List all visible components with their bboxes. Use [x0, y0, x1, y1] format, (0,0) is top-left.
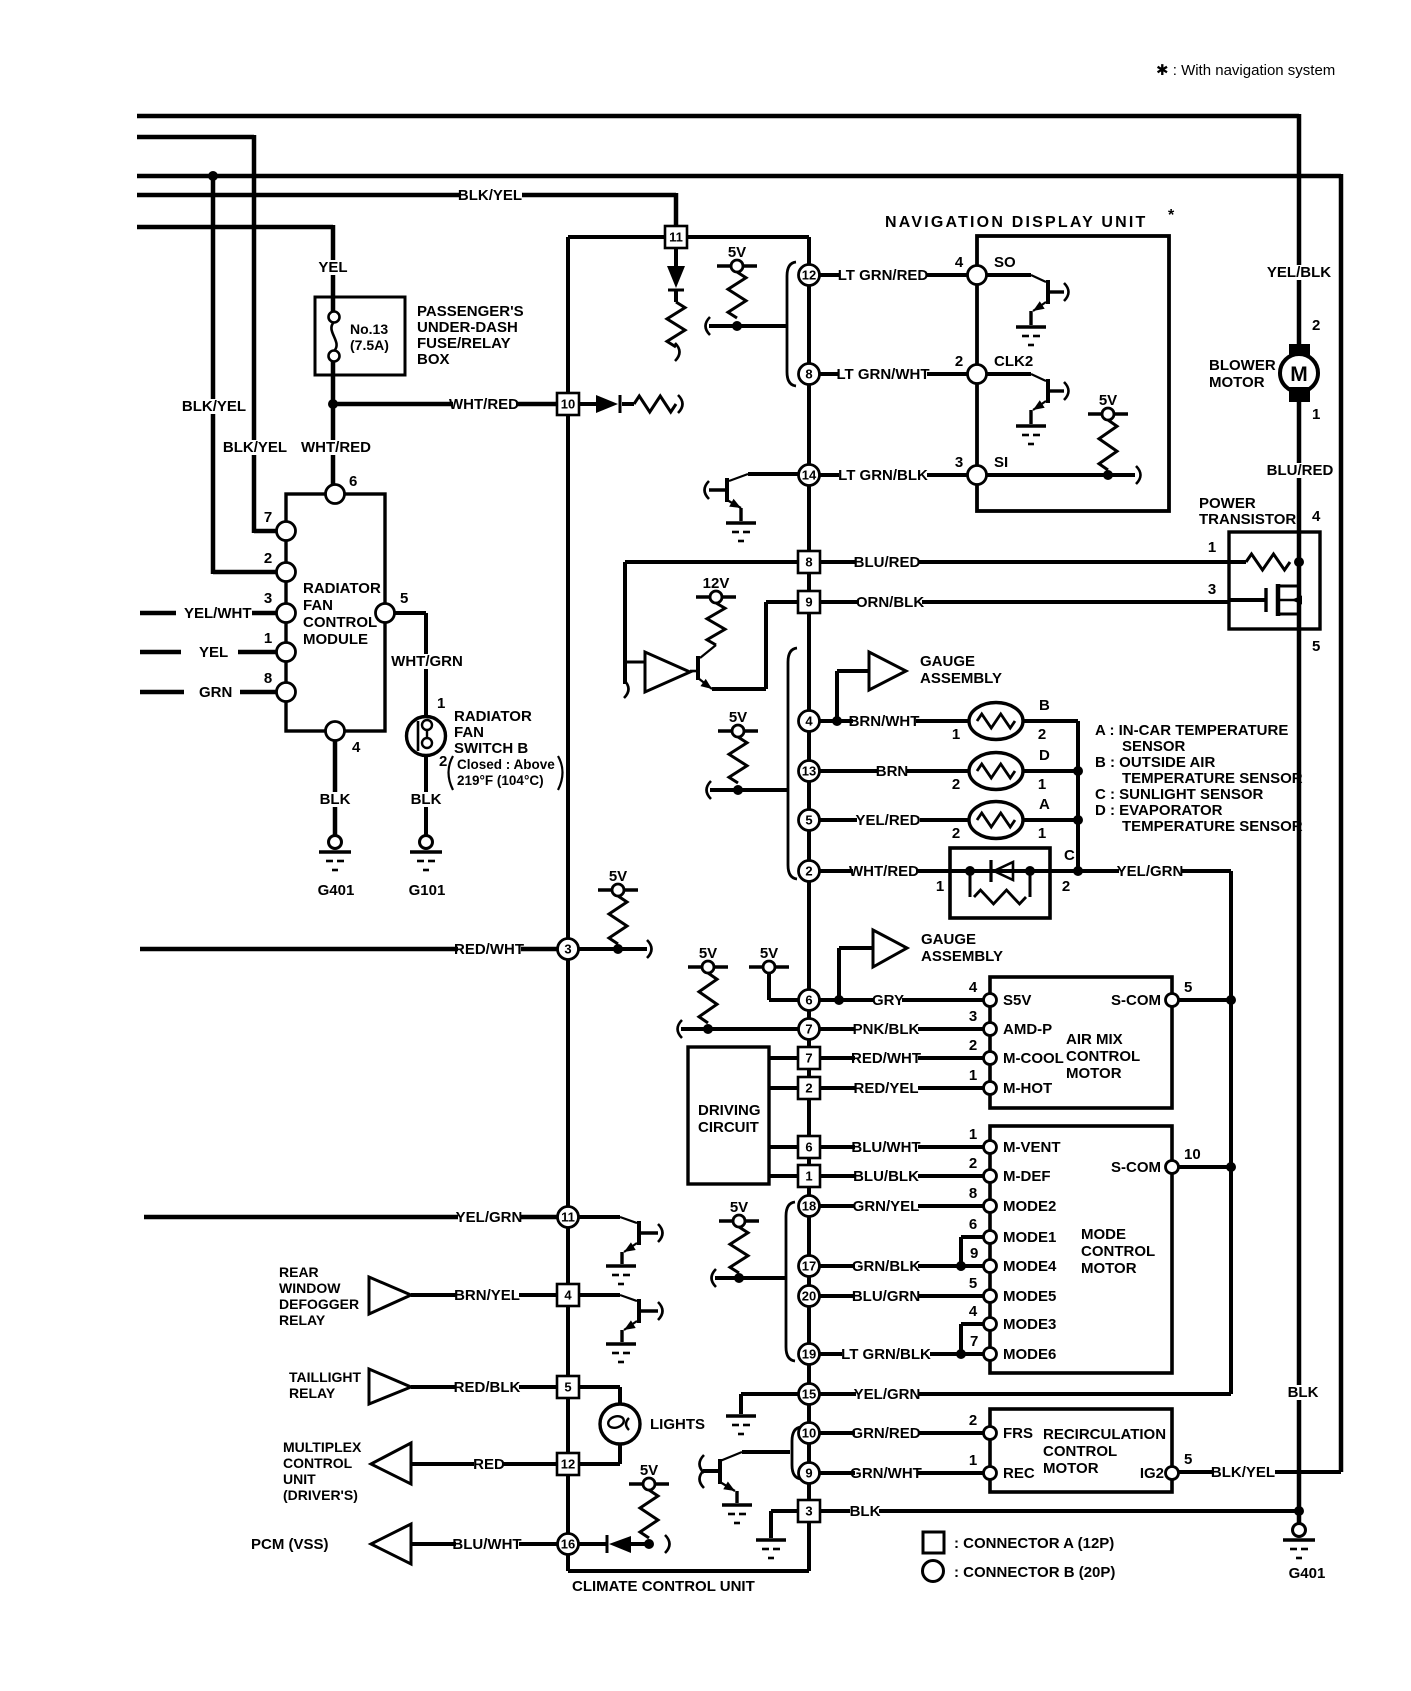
resistor 5V F [640, 1490, 658, 1538]
nav resistor 5V [1099, 420, 1117, 470]
svg-text:5: 5 [564, 1380, 571, 1395]
wire BLK long [820, 1509, 1299, 1513]
svg-text:BOX: BOX [417, 351, 450, 368]
svg-text:(7.5A): (7.5A) [350, 337, 389, 353]
wire circle15 to ground [741, 1392, 798, 1396]
svg-text:5: 5 [1312, 638, 1320, 655]
connector A square 1 [798, 1165, 820, 1187]
svg-text:19: 19 [802, 1347, 816, 1362]
module pin 7 [277, 522, 296, 541]
svg-text:3: 3 [955, 454, 963, 471]
module pin 5 [376, 604, 395, 623]
wire YEL/GRN long [144, 1215, 557, 1220]
air mix pin S-COM [1166, 994, 1179, 1007]
label BLU/WHT [855, 1140, 918, 1155]
svg-text:5V: 5V [760, 945, 778, 962]
recirc pin FRS [984, 1427, 997, 1440]
wire S-COM 5 to YEL/GRN [1178, 998, 1231, 1002]
svg-text:ASSEMBLY: ASSEMBLY [920, 670, 1002, 687]
wire driving to square 2 [769, 1086, 798, 1090]
ground Q-11 [606, 1264, 636, 1268]
svg-text:MODE5: MODE5 [1003, 1288, 1056, 1305]
svg-text:B : OUTSIDE AIR: B : OUTSIDE AIR [1095, 754, 1215, 771]
connector B circle 16 [558, 1534, 579, 1555]
label RED/WHT long [458, 942, 521, 957]
wire driving to square 7 [769, 1056, 798, 1060]
svg-text:BLK/YEL: BLK/YEL [1211, 1464, 1275, 1481]
wire 5V A to brace [706, 317, 711, 335]
label BLU/RED right [1269, 463, 1332, 478]
svg-text:YEL: YEL [318, 259, 347, 276]
svg-text:BLK: BLK [850, 1503, 881, 1520]
svg-text:G401: G401 [318, 882, 355, 899]
label BLU/RED wire [856, 555, 919, 570]
svg-text:18: 18 [802, 1199, 816, 1214]
svg-text:20: 20 [802, 1289, 816, 1304]
svg-text:ASSEMBLY: ASSEMBLY [921, 948, 1003, 965]
svg-text:5V: 5V [730, 1199, 748, 1216]
resistor 5V C2 [609, 896, 627, 944]
svg-text:YEL/RED: YEL/RED [855, 812, 920, 829]
wire switch pin2 to ground [424, 755, 428, 836]
svg-text:WHT/RED: WHT/RED [849, 863, 919, 880]
node MODE4 junction [956, 1261, 966, 1271]
wire LT GRN/RED [820, 273, 967, 277]
recirc pin IG2 [1166, 1467, 1179, 1480]
svg-text:D: D [1039, 747, 1050, 764]
module pin 3 [277, 604, 296, 623]
wire GRN/WHT [820, 1471, 984, 1475]
label BLK left [320, 792, 349, 807]
svg-text:9: 9 [805, 595, 812, 610]
wire feed line 4 BLK/YEL [137, 193, 676, 198]
wire buffer input stub [625, 661, 645, 664]
label WHT/RED vertical [305, 440, 368, 455]
label BLK/YEL on x=213 [183, 399, 246, 414]
fuse No.13 symbol [329, 312, 340, 323]
svg-text:14: 14 [802, 468, 817, 483]
svg-text:MODE: MODE [1081, 1226, 1126, 1243]
wire module pin5 to switch WHT/GRN [394, 611, 426, 615]
label PNK/BLK [855, 1022, 918, 1037]
label LT GRN/WHT [839, 367, 927, 382]
svg-text:Closed : Above: Closed : Above [457, 757, 555, 772]
svg-text:2: 2 [805, 864, 812, 879]
wire driving to square 1 [769, 1174, 798, 1178]
legend connector B circle [923, 1561, 944, 1582]
svg-text:RADIATOR: RADIATOR [454, 708, 532, 725]
svg-text:3: 3 [564, 942, 571, 957]
wire Q-CLK2 to ground [1029, 410, 1032, 424]
node S-COM 5 junction [1226, 995, 1236, 1005]
module pin 8 [277, 683, 296, 702]
nav transistor Q-CLK2 emitter [1033, 401, 1046, 410]
ground Q-CLK2 [1016, 424, 1046, 428]
svg-text:TRANSISTOR: TRANSISTOR [1199, 511, 1296, 528]
svg-text:YEL/GRN: YEL/GRN [854, 1386, 921, 1403]
transistor Q-12V collector [700, 645, 716, 658]
svg-text:UNDER-DASH: UNDER-DASH [417, 319, 518, 336]
svg-text:BLK/YEL: BLK/YEL [223, 439, 287, 456]
svg-text:1: 1 [936, 878, 944, 895]
svg-text:1: 1 [1038, 776, 1046, 793]
wire YEL/RED [820, 818, 969, 822]
power transistor box [1229, 532, 1320, 629]
svg-text:4: 4 [1312, 508, 1321, 525]
svg-text:ORN/BLK: ORN/BLK [856, 594, 924, 611]
svg-text:9: 9 [805, 1466, 812, 1481]
svg-text:8: 8 [805, 367, 812, 382]
svg-text:RADIATOR: RADIATOR [303, 580, 381, 597]
wire bulb to box12 [618, 1443, 622, 1464]
svg-text:BRN/YEL: BRN/YEL [454, 1287, 520, 1304]
svg-text:MOTOR: MOTOR [1209, 374, 1265, 391]
ground G401 left [329, 836, 342, 849]
transistor Q-14 emitter [727, 500, 741, 508]
svg-text:RELAY: RELAY [279, 1312, 326, 1328]
svg-text:BLK: BLK [320, 791, 351, 808]
diode at connector 10 [580, 402, 596, 406]
svg-text:G401: G401 [1289, 1565, 1326, 1582]
svg-text:2: 2 [969, 1412, 977, 1429]
svg-text:BRN: BRN [876, 763, 909, 780]
svg-text:BLK/YEL: BLK/YEL [182, 398, 246, 415]
svg-text:DRIVING: DRIVING [698, 1102, 761, 1119]
ground Q-4 [606, 1342, 636, 1346]
svg-text:RED/WHT: RED/WHT [851, 1050, 921, 1067]
brace sensor connectors [788, 648, 797, 879]
label YEL/GRN long [458, 1210, 521, 1225]
wire box5 to bulb [579, 1385, 620, 1389]
transistor Q-rec emitter [720, 1482, 735, 1491]
gauge assembly 1 triangle [869, 652, 906, 690]
node S-COM 10 junction [1226, 1162, 1236, 1172]
svg-text:FUSE/RELAY: FUSE/RELAY [417, 335, 511, 352]
node gauge2 junction [834, 995, 844, 1005]
label WHT/GRN [396, 654, 459, 669]
climate control unit right edge [807, 237, 811, 1571]
transistor Q-11 collector wire [579, 1215, 620, 1219]
svg-text:C: C [1064, 847, 1075, 864]
svg-text:2: 2 [1062, 878, 1070, 895]
wire sensor A to common [1023, 818, 1078, 822]
svg-text:4: 4 [352, 739, 361, 756]
wire YEL/GRN sensor return [1078, 869, 1231, 873]
wire Q-SO to ground [1029, 311, 1032, 325]
connector B circle 7 [799, 1019, 820, 1040]
wire sensor D to common [1023, 769, 1078, 773]
wire BLU/GRN [820, 1294, 984, 1298]
svg-text:LT GRN/RED: LT GRN/RED [838, 267, 929, 284]
wire 5V B to brace [707, 781, 712, 799]
svg-text:9: 9 [970, 1245, 978, 1262]
gauge assembly 2 triangle [873, 930, 907, 967]
connector B circle 4 [799, 711, 820, 732]
driving circuit box [688, 1047, 769, 1184]
nav pin 4 SO [968, 266, 987, 285]
resistor sensor C parallel [969, 871, 972, 897]
svg-text:2: 2 [969, 1155, 977, 1172]
paren right tall [558, 756, 563, 790]
svg-text:5: 5 [1184, 1451, 1192, 1468]
svg-text:(DRIVER'S): (DRIVER'S) [283, 1487, 358, 1503]
svg-text:PASSENGER'S: PASSENGER'S [417, 303, 524, 320]
power transistor resistor [1229, 560, 1246, 564]
connector B circle 19 [799, 1344, 820, 1365]
node gauge1 junction [832, 716, 842, 726]
node circle3 5V junction [613, 944, 623, 954]
node sensor D junction [1073, 766, 1083, 776]
svg-text:S5V: S5V [1003, 992, 1031, 1009]
wire BRN/YEL [411, 1293, 557, 1297]
svg-text:CLIMATE CONTROL UNIT: CLIMATE CONTROL UNIT [572, 1578, 755, 1595]
label ORN/BLK wire [859, 595, 922, 610]
svg-text:BLK: BLK [1288, 1384, 1319, 1401]
wire BLK/YEL from IG2 [1178, 1470, 1341, 1474]
wire gauge2 to GRY [839, 946, 873, 950]
svg-text:219°F (104°C): 219°F (104°C) [457, 773, 544, 788]
wire gauge1 to BRN/WHT [837, 669, 869, 673]
connector B circle 18 [799, 1196, 820, 1217]
svg-text:POWER: POWER [1199, 495, 1256, 512]
wire Q-11 emitter to ground [620, 1252, 623, 1264]
legend connector A square [923, 1532, 944, 1553]
label GRN/WHT [855, 1466, 918, 1481]
label YEL/BLK [1268, 265, 1331, 280]
air mix pin M-HOT [984, 1082, 997, 1095]
svg-text:2: 2 [969, 1037, 977, 1054]
sensor A oval [969, 802, 1023, 839]
svg-text:MULTIPLEX: MULTIPLEX [283, 1439, 362, 1455]
mode pin MODE6 [984, 1348, 997, 1361]
label BLU/BLK [855, 1169, 918, 1184]
power transistor MOSFET source [1278, 613, 1299, 616]
wire feed line 3 drop to far right [1339, 174, 1344, 1472]
svg-text:3: 3 [805, 1504, 812, 1519]
connector A square 2 [798, 1077, 820, 1099]
defogger relay triangle [369, 1277, 411, 1314]
recirc pin REC [984, 1467, 997, 1480]
mode pin MODE5 [984, 1290, 997, 1303]
wire GRY [820, 998, 984, 1002]
svg-text:M: M [1290, 363, 1308, 386]
radiator fan control module box [286, 494, 385, 731]
svg-text:*: * [1168, 207, 1175, 224]
transistor Q-14 collector wire [748, 472, 798, 476]
paren left tall [449, 756, 454, 790]
svg-text:M-DEF: M-DEF [1003, 1168, 1051, 1185]
navigation display unit box [977, 236, 1169, 511]
radiator fan switch B symbol [407, 717, 446, 756]
svg-text:MOTOR: MOTOR [1081, 1260, 1137, 1277]
module pin 4 [326, 722, 345, 741]
wire feed 5 drop YEL to fuse [331, 225, 336, 312]
svg-text:BLU/WHT: BLU/WHT [851, 1139, 920, 1156]
transistor Q-11 base lead [639, 1231, 658, 1234]
svg-text:: CONNECTOR B (20P): : CONNECTOR B (20P) [954, 1564, 1115, 1581]
transistor Q-11 base bar [637, 1221, 641, 1245]
svg-text:CONTROL: CONTROL [283, 1455, 353, 1471]
nav transistor Q-SO base bar [1046, 280, 1050, 304]
svg-text:CONTROL: CONTROL [1081, 1243, 1155, 1260]
svg-text:4: 4 [969, 1303, 978, 1320]
transistor Q-14 base bar [725, 478, 729, 502]
svg-text:12: 12 [561, 1457, 575, 1472]
pcm triangle [371, 1524, 411, 1564]
label BLK right [1288, 1385, 1317, 1400]
transistor Q-12V emitter [698, 678, 712, 689]
svg-text:7: 7 [805, 1022, 812, 1037]
wire PNK/BLK [820, 1027, 984, 1031]
node 5V E junction [734, 1273, 744, 1283]
wire YEL/GRN return [820, 1392, 1231, 1396]
svg-text:IG2: IG2 [1140, 1465, 1164, 1482]
air mix pin AMD-P [984, 1023, 997, 1036]
wire RED [411, 1462, 557, 1466]
wire GRN/RED [820, 1431, 984, 1435]
svg-text:2: 2 [955, 353, 963, 370]
wire BLK/YEL drop x=213 [211, 176, 216, 574]
wire LT GRN/BLK bottom [820, 1352, 984, 1356]
svg-text:10: 10 [1184, 1146, 1201, 1163]
connector A square 9 [798, 591, 820, 613]
resistor under connector 11 [667, 302, 685, 347]
svg-text:LT GRN/BLK: LT GRN/BLK [838, 467, 928, 484]
node diode16 junction [644, 1539, 654, 1549]
mode pin M-DEF [984, 1170, 997, 1183]
node 5V A junction [732, 321, 742, 331]
svg-text:MODULE: MODULE [303, 631, 368, 648]
resistor 5V E [730, 1227, 748, 1273]
transistor Q-rec collector [720, 1452, 742, 1461]
label GRN/YEL [855, 1199, 918, 1214]
svg-text:6: 6 [805, 993, 812, 1008]
label BRN/YEL [456, 1288, 519, 1303]
label RED/YEL [855, 1081, 918, 1096]
connector B circle 2 [799, 861, 820, 882]
svg-text:FAN: FAN [303, 597, 333, 614]
svg-text:GRN/BLK: GRN/BLK [852, 1258, 920, 1275]
svg-text:No.13: No.13 [350, 321, 388, 337]
connector A square 10 [557, 393, 579, 415]
label GRN/RED [855, 1426, 918, 1441]
wire MODE1 loop [959, 1237, 963, 1266]
svg-text:FAN: FAN [454, 724, 484, 741]
svg-text:G101: G101 [409, 882, 446, 899]
wire feed line 1 drop to blower (YEL/BLK) [1297, 114, 1302, 1523]
power transistor MOSFET drain [1278, 585, 1299, 588]
svg-text:13: 13 [802, 764, 816, 779]
svg-text:UNIT: UNIT [283, 1471, 316, 1487]
wire RED/YEL [820, 1086, 984, 1090]
svg-text:PCM (VSS): PCM (VSS) [251, 1536, 329, 1553]
wire fuse to WHT/RED node [331, 361, 336, 496]
svg-text:1: 1 [952, 726, 960, 743]
svg-text:CLK2: CLK2 [994, 353, 1033, 370]
label BLK switch [411, 792, 440, 807]
transistor Q-4 emitter [624, 1321, 637, 1330]
svg-text:GRN/WHT: GRN/WHT [850, 1465, 922, 1482]
svg-text:SO: SO [994, 254, 1016, 271]
brace connectors 18-19 [786, 1202, 795, 1361]
label LT GRN/BLK bottom [842, 1347, 930, 1362]
svg-text:BLK/YEL: BLK/YEL [458, 187, 522, 204]
svg-text:8: 8 [805, 555, 812, 570]
resistor 5V C [699, 973, 717, 1023]
wire BRN/WHT [820, 719, 969, 723]
svg-text:16: 16 [561, 1537, 575, 1552]
label LT GRN/BLK top [839, 468, 927, 483]
connector B circle 8 [799, 364, 820, 385]
svg-text:RED/BLK: RED/BLK [454, 1379, 521, 1396]
wire 5V E to brace [712, 1269, 717, 1287]
nav transistor Q-SO wire [987, 273, 1031, 277]
label GRY [873, 993, 902, 1008]
wire BLU/WHT [820, 1145, 984, 1149]
label BLU/WHT pcm [456, 1537, 519, 1552]
ground G101 [420, 836, 433, 849]
svg-text:BRN/WHT: BRN/WHT [849, 713, 920, 730]
svg-text:: CONNECTOR A (12P): : CONNECTOR A (12P) [954, 1535, 1114, 1552]
label WHT/RED sensor C [853, 864, 916, 879]
wire module pin4 to ground [333, 740, 338, 836]
wire through sensor C [950, 869, 1078, 873]
bulb LIGHTS [600, 1404, 640, 1444]
svg-text:7: 7 [970, 1333, 978, 1350]
svg-text:S-COM: S-COM [1111, 992, 1161, 1009]
svg-text:WINDOW: WINDOW [279, 1280, 341, 1296]
mode control motor box [990, 1126, 1172, 1373]
svg-text:2: 2 [805, 1081, 812, 1096]
svg-text:6: 6 [969, 1216, 977, 1233]
node sensor A junction [1073, 815, 1083, 825]
svg-text:SWITCH B: SWITCH B [454, 740, 528, 757]
svg-text:WHT/GRN: WHT/GRN [391, 653, 463, 670]
wire LT GRN/WHT [820, 372, 967, 376]
svg-text:TEMPERATURE SENSOR: TEMPERATURE SENSOR [1122, 770, 1303, 787]
node WHT/RED junction below fuse [328, 399, 338, 409]
svg-text:1: 1 [969, 1126, 977, 1143]
connector B circle 5 [799, 810, 820, 831]
wire BRN [820, 769, 969, 773]
connector B circle 3 left [558, 939, 579, 960]
node sensors common [1073, 866, 1083, 876]
node nav 5V junction [1103, 470, 1113, 480]
wire box9 branch to Q-12V emitter [766, 600, 798, 604]
svg-text:4: 4 [805, 714, 813, 729]
wire BLU/WHT pcm [411, 1542, 557, 1546]
svg-text:RECIRCULATION: RECIRCULATION [1043, 1426, 1166, 1443]
node 5V B junction [733, 785, 743, 795]
ground Q-SO [1016, 325, 1046, 329]
svg-text:5V: 5V [640, 1462, 658, 1479]
wire SI [987, 473, 1135, 477]
connector B circle 14 [799, 465, 820, 486]
svg-text:YEL/GRN: YEL/GRN [1117, 863, 1184, 880]
connector B circle 11 [558, 1207, 579, 1228]
wire feed 4 drop to connector 11 [674, 193, 679, 226]
svg-text:7: 7 [805, 1051, 812, 1066]
svg-text:4: 4 [564, 1288, 572, 1303]
wire battery feed line 1 [137, 114, 1299, 119]
svg-text:2: 2 [952, 776, 960, 793]
svg-text:1: 1 [1312, 406, 1320, 423]
svg-text:BLU/RED: BLU/RED [854, 554, 921, 571]
power transistor MOSFET channel [1276, 584, 1281, 616]
svg-text:15: 15 [802, 1387, 816, 1402]
svg-text:AMD-P: AMD-P [1003, 1021, 1052, 1038]
wire BLK/YEL x=254 to module pin 7 [254, 529, 277, 534]
